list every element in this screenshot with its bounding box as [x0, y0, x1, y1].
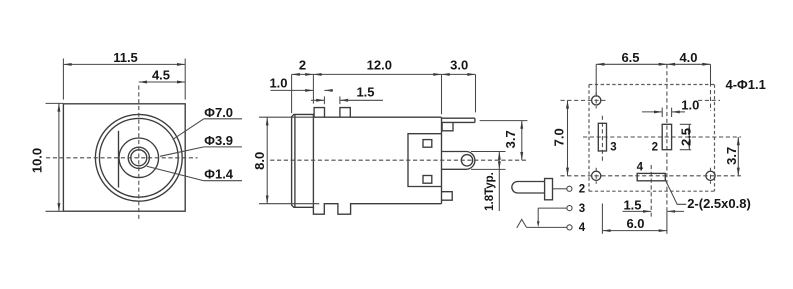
svg-text:2-(2.5x0.8): 2-(2.5x0.8) — [687, 196, 751, 211]
svg-text:2: 2 — [579, 184, 585, 196]
svg-text:4.5: 4.5 — [152, 67, 170, 82]
svg-text:Φ1.4: Φ1.4 — [204, 167, 234, 182]
svg-text:3.0: 3.0 — [450, 57, 468, 72]
svg-text:2: 2 — [299, 57, 306, 72]
svg-text:12.0: 12.0 — [367, 57, 392, 72]
svg-text:3: 3 — [610, 141, 616, 153]
svg-text:4: 4 — [637, 161, 644, 173]
svg-text:10.0: 10.0 — [30, 148, 45, 173]
svg-text:11.5: 11.5 — [113, 50, 138, 65]
svg-text:4: 4 — [579, 222, 586, 234]
svg-text:1.5: 1.5 — [356, 85, 374, 100]
svg-text:8.0: 8.0 — [252, 152, 267, 170]
svg-text:2: 2 — [652, 142, 658, 154]
svg-text:4-Φ1.1: 4-Φ1.1 — [726, 77, 766, 92]
svg-text:1.8Typ.: 1.8Typ. — [484, 172, 496, 211]
svg-text:3.7: 3.7 — [724, 147, 739, 165]
svg-text:Φ3.9: Φ3.9 — [204, 133, 233, 148]
svg-text:6.0: 6.0 — [626, 216, 644, 231]
svg-text:3.7: 3.7 — [503, 130, 518, 148]
svg-text:2.5: 2.5 — [678, 128, 693, 146]
svg-text:1.5: 1.5 — [623, 197, 641, 212]
svg-text:1.0: 1.0 — [681, 97, 699, 112]
svg-text:1.0: 1.0 — [269, 76, 287, 91]
svg-text:4.0: 4.0 — [679, 50, 697, 65]
svg-text:Φ7.0: Φ7.0 — [204, 105, 233, 120]
svg-text:7.0: 7.0 — [551, 128, 566, 146]
svg-text:6.5: 6.5 — [621, 50, 639, 65]
svg-text:3: 3 — [579, 203, 585, 215]
